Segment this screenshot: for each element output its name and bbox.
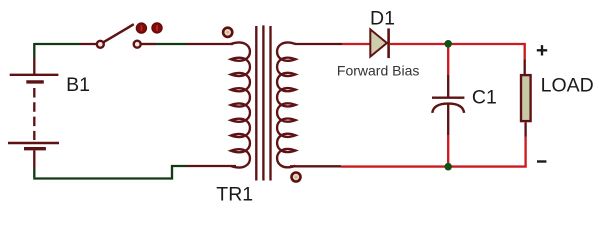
svg-text:C1: C1	[472, 86, 497, 108]
svg-text:LOAD: LOAD	[541, 75, 594, 97]
svg-text:D1: D1	[370, 7, 395, 29]
svg-text:Forward Bias: Forward Bias	[337, 63, 419, 79]
svg-text:B1: B1	[66, 74, 90, 96]
svg-text:TR1: TR1	[216, 184, 253, 206]
